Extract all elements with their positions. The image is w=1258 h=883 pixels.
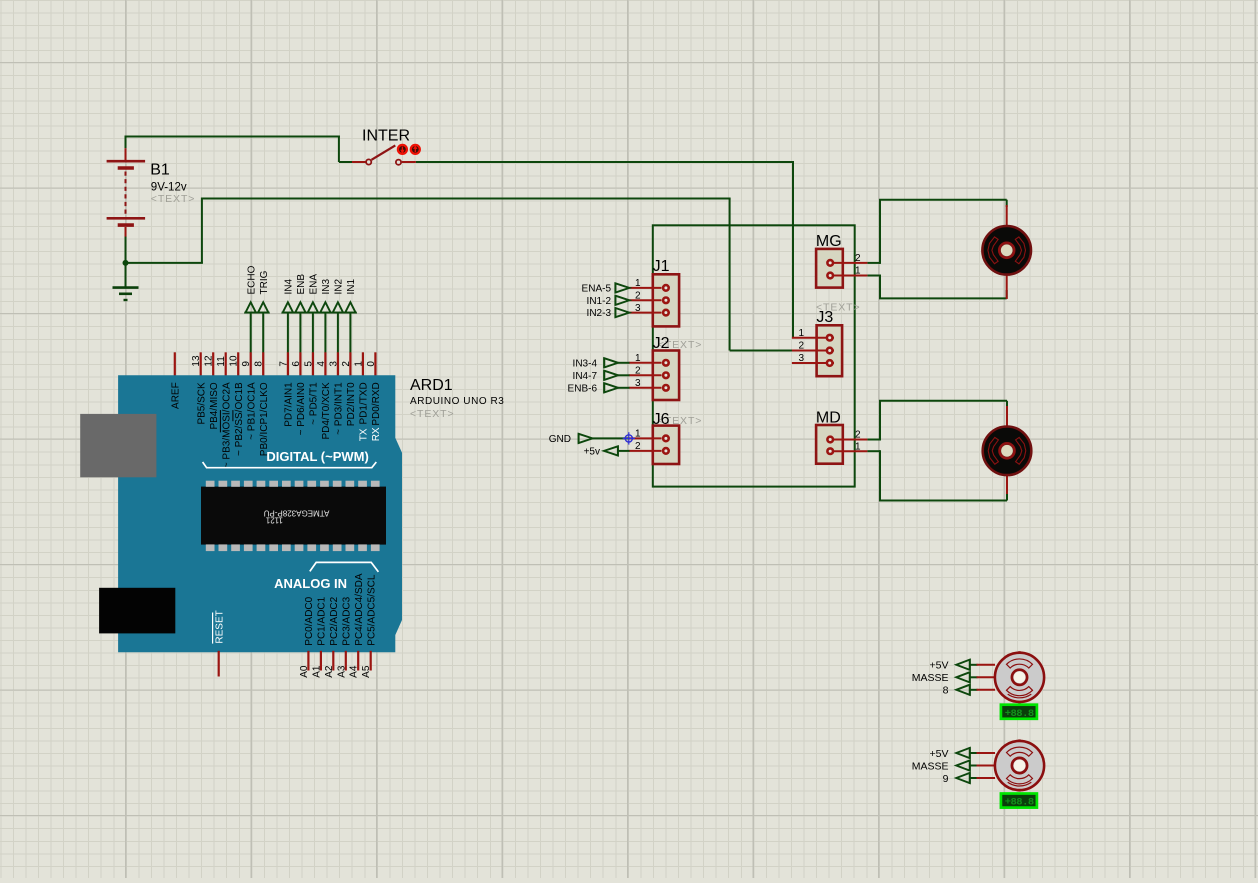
display servo 2 +88.8 xyxy=(1001,794,1037,808)
svg-text:IN1: IN1 xyxy=(346,279,357,295)
svg-text:J1: J1 xyxy=(653,258,670,275)
svg-text:PD0/RXD: PD0/RXD xyxy=(371,382,382,425)
svg-text:13: 13 xyxy=(191,355,202,367)
svg-text:J6: J6 xyxy=(653,411,670,428)
junction battery- xyxy=(123,260,129,266)
svg-text:MASSE: MASSE xyxy=(912,672,949,684)
pin 1 MG xyxy=(833,275,868,277)
svg-text:<TEXT>: <TEXT> xyxy=(151,193,196,205)
svg-text:1: 1 xyxy=(353,361,364,367)
terminal GND xyxy=(579,434,593,443)
svg-text:2: 2 xyxy=(635,441,641,452)
pin 2 MG xyxy=(833,262,868,264)
motor MD xyxy=(983,427,1032,476)
svg-text:RX: RX xyxy=(371,427,382,441)
arduino ARD1 top pins xyxy=(174,352,176,376)
svg-text:AREF: AREF xyxy=(171,382,182,409)
svg-text:A2: A2 xyxy=(324,665,335,678)
svg-text:3: 3 xyxy=(328,361,339,367)
svg-text:IN4: IN4 xyxy=(284,279,295,295)
svg-text:+5v: +5v xyxy=(584,447,600,458)
arduino power jack xyxy=(99,588,175,634)
connector J1 xyxy=(653,274,679,326)
terminal IN3 xyxy=(320,302,330,312)
wire MG pin 2 to motor MG+ xyxy=(867,262,880,264)
svg-text:1: 1 xyxy=(855,266,861,277)
svg-text:8: 8 xyxy=(943,685,949,697)
svg-text:PC5/ADC5/SCL: PC5/ADC5/SCL xyxy=(366,574,377,646)
wire switch to J3 pin 1 xyxy=(416,161,794,163)
svg-text:9: 9 xyxy=(241,361,252,367)
svg-text:2: 2 xyxy=(341,361,352,367)
svg-text:+5V: +5V xyxy=(930,748,949,760)
svg-text:IN3: IN3 xyxy=(321,279,332,295)
svg-text:IN3-4: IN3-4 xyxy=(573,358,598,369)
svg-text:8: 8 xyxy=(254,361,265,367)
motor MG pin stub top xyxy=(1006,205,1008,228)
svg-text:PB0/ICP1/CLKO: PB0/ICP1/CLKO xyxy=(259,382,270,456)
pin 2 MD xyxy=(833,439,868,441)
svg-text:+88.8: +88.8 xyxy=(1005,708,1034,720)
pin 1 J3 xyxy=(792,337,834,339)
wire MG pin 1 to motor MG- xyxy=(867,275,880,277)
arduino ARD1 board xyxy=(119,376,402,652)
svg-text:ENB-6: ENB-6 xyxy=(568,383,598,394)
motor MD pin stub top xyxy=(1006,406,1008,429)
svg-text:INTER: INTER xyxy=(362,128,410,145)
pin 2 J3 xyxy=(792,350,834,352)
svg-text:<TEXT>: <TEXT> xyxy=(410,408,455,420)
terminal IN2 xyxy=(333,302,343,312)
analog brace xyxy=(310,562,379,572)
connector J2 xyxy=(653,351,679,401)
connector J3 xyxy=(817,325,843,376)
pin 2 J1 xyxy=(630,299,662,301)
svg-text:1: 1 xyxy=(635,353,641,364)
svg-text:ECHO: ECHO xyxy=(246,265,257,294)
svg-text:A4: A4 xyxy=(349,665,360,678)
pin 1 J6 xyxy=(629,437,662,439)
ground xyxy=(125,263,127,288)
svg-text:ARDUINO UNO R3: ARDUINO UNO R3 xyxy=(410,396,504,407)
wire MD pin 1 to motor MD- xyxy=(867,450,880,452)
svg-text:~ PD3/INT1: ~ PD3/INT1 xyxy=(334,382,345,435)
pin 2 J6 xyxy=(629,450,662,452)
pin 2 J2 xyxy=(629,374,662,376)
connector MD xyxy=(816,425,843,464)
wire loop J1-J6 to MG-MD xyxy=(653,225,855,486)
terminal ENA-5 xyxy=(615,283,629,292)
svg-text:A5: A5 xyxy=(361,665,372,678)
svg-text:ENA-5: ENA-5 xyxy=(582,284,612,295)
svg-text:ANALOG IN: ANALOG IN xyxy=(274,576,347,591)
svg-text:B1: B1 xyxy=(150,162,170,179)
motor MG xyxy=(982,226,1031,275)
MOSI overline xyxy=(219,410,221,432)
svg-text:2: 2 xyxy=(799,341,805,352)
svg-text:A0: A0 xyxy=(299,665,310,678)
origin marker xyxy=(625,435,632,442)
svg-text:7: 7 xyxy=(278,361,289,367)
svg-text:~ PD6/AIN0: ~ PD6/AIN0 xyxy=(296,382,307,436)
svg-text:+88.8: +88.8 xyxy=(1005,797,1034,809)
wire MD pin 2 to motor MD+ xyxy=(867,439,880,441)
svg-text:~ PD5/T1: ~ PD5/T1 xyxy=(309,382,320,425)
svg-text:6: 6 xyxy=(291,361,302,367)
svg-text:PD1/TXD: PD1/TXD xyxy=(359,382,370,424)
svg-text:+5V: +5V xyxy=(930,660,949,672)
terminal IN1 xyxy=(345,302,355,312)
svg-text:3: 3 xyxy=(635,378,641,389)
terminal IN3-4 xyxy=(604,358,618,367)
svg-text:PB4/MISO: PB4/MISO xyxy=(209,382,220,429)
digital brace xyxy=(203,462,377,468)
svg-text:9V-12v: 9V-12v xyxy=(151,181,187,193)
svg-text:3: 3 xyxy=(635,303,641,314)
SS overline xyxy=(232,410,234,421)
svg-text:~ PB2/SS/OC1B: ~ PB2/SS/OC1B xyxy=(234,382,245,456)
connector J6 xyxy=(653,426,679,464)
svg-text:MASSE: MASSE xyxy=(912,760,949,772)
svg-text:TRIG: TRIG xyxy=(259,270,270,294)
svg-text:0: 0 xyxy=(366,361,377,367)
pin 3 J3 xyxy=(792,362,834,364)
terminal ENA xyxy=(308,302,318,312)
pin 3 J1 xyxy=(630,312,662,314)
svg-text:A1: A1 xyxy=(311,665,322,678)
svg-text:PC4/ADC4/SDA: PC4/ADC4/SDA xyxy=(354,573,365,646)
svg-text:PC3/ADC3: PC3/ADC3 xyxy=(342,596,353,645)
terminal ENB xyxy=(295,302,305,312)
svg-text:1121: 1121 xyxy=(265,516,283,525)
svg-text:2: 2 xyxy=(855,253,861,264)
switch indicator down xyxy=(398,145,407,154)
svg-text:PB5/SCK: PB5/SCK xyxy=(196,382,207,425)
svg-text:2: 2 xyxy=(635,366,641,377)
svg-text:5: 5 xyxy=(303,361,314,367)
svg-text:11: 11 xyxy=(216,356,227,367)
svg-text:IN4-7: IN4-7 xyxy=(573,371,598,382)
svg-text:ENA: ENA xyxy=(309,274,320,295)
pin 1 J1 xyxy=(630,287,662,289)
svg-text:~ PB3/MOSI/OC2A: ~ PB3/MOSI/OC2A xyxy=(221,382,232,468)
terminal +5v xyxy=(604,446,618,455)
arduino USB connector xyxy=(80,414,156,477)
svg-text:PD2/INT0: PD2/INT0 xyxy=(346,382,357,426)
svg-text:MD: MD xyxy=(816,409,841,426)
svg-text:A3: A3 xyxy=(336,665,347,678)
svg-text:TX: TX xyxy=(359,428,370,441)
svg-text:PC0/ADC0: PC0/ADC0 xyxy=(304,596,315,645)
svg-text:1: 1 xyxy=(635,429,641,440)
pin 1 MD xyxy=(833,450,868,452)
svg-text:PD7/AIN1: PD7/AIN1 xyxy=(284,382,295,427)
terminal IN1-2 xyxy=(615,296,629,305)
svg-text:RESET: RESET xyxy=(214,610,225,643)
chip U1 ATMEGA328P xyxy=(201,487,386,545)
svg-text:3: 3 xyxy=(799,353,805,364)
svg-text:2: 2 xyxy=(855,430,861,441)
wire battery+ to switch xyxy=(125,136,340,138)
battery B1 xyxy=(125,137,127,149)
svg-text:4: 4 xyxy=(316,361,327,367)
svg-text:IN2: IN2 xyxy=(334,279,345,295)
svg-text:1: 1 xyxy=(799,328,805,339)
svg-text:ENB: ENB xyxy=(296,274,307,295)
switch indicator up xyxy=(411,145,420,154)
svg-text:MG: MG xyxy=(816,233,842,250)
svg-text:IN2-3: IN2-3 xyxy=(587,308,612,319)
svg-text:J2: J2 xyxy=(653,335,670,352)
svg-text:IN1-2: IN1-2 xyxy=(587,296,612,307)
arduino reset pin xyxy=(218,651,220,677)
pin 1 J2 xyxy=(629,362,662,364)
terminal ECHO xyxy=(246,302,256,312)
servo motor 2 xyxy=(956,748,970,758)
terminal IN4 xyxy=(283,302,293,312)
terminal TRIG xyxy=(258,302,268,312)
svg-text:ARD1: ARD1 xyxy=(410,377,453,394)
terminal IN2-3 xyxy=(615,308,629,317)
svg-text:9: 9 xyxy=(943,773,949,785)
servo motor 1 xyxy=(956,660,970,670)
arduino analog pins xyxy=(307,651,309,671)
pin 3 J2 xyxy=(629,387,662,389)
svg-text:GND: GND xyxy=(549,434,571,445)
svg-text:PD4/T0/XCK: PD4/T0/XCK xyxy=(321,382,332,440)
svg-text:10: 10 xyxy=(229,355,240,367)
svg-text:PC1/ADC1: PC1/ADC1 xyxy=(317,596,328,645)
motor MG pin stub bottom xyxy=(1006,272,1008,299)
svg-text:2: 2 xyxy=(635,291,641,302)
terminal IN4-7 xyxy=(604,371,618,380)
svg-text:12: 12 xyxy=(204,355,215,367)
wire battery- to J3 pin 2 xyxy=(126,262,203,264)
svg-text:1: 1 xyxy=(635,278,641,289)
switch INTER xyxy=(352,161,366,163)
connector MG xyxy=(816,249,843,288)
svg-text:1: 1 xyxy=(855,441,861,452)
svg-text:DIGITAL (~PWM): DIGITAL (~PWM) xyxy=(266,449,368,464)
motor MD pin stub bottom xyxy=(1006,473,1008,494)
display servo 1 +88.8 xyxy=(1001,705,1037,719)
svg-text:PC2/ADC2: PC2/ADC2 xyxy=(329,596,340,645)
svg-text:~ PB1/OC1A: ~ PB1/OC1A xyxy=(246,382,257,440)
terminal ENB-6 xyxy=(604,383,618,392)
svg-text:J3: J3 xyxy=(816,309,833,326)
